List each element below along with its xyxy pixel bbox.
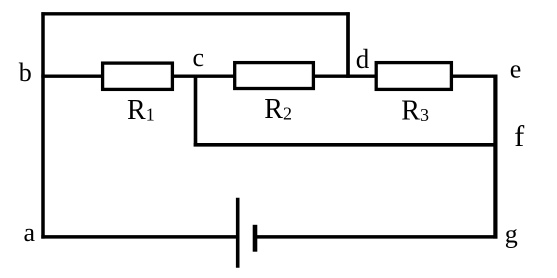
battery: long plate (positive) <box>236 198 240 268</box>
svg-text:a: a <box>24 218 36 247</box>
resistor R1 <box>103 63 173 89</box>
svg-text:d: d <box>356 44 370 74</box>
svg-text:R3: R3 <box>401 95 429 126</box>
wire: right vertical e to g <box>493 75 497 239</box>
wire: battery negative plate to g <box>255 235 498 239</box>
wire: vertical drop from top wire into node d <box>346 12 350 78</box>
wire: b to R1 left lead <box>41 74 102 77</box>
wire: horizontal c-branch over to f <box>194 143 498 147</box>
svg-text:g: g <box>505 220 518 249</box>
battery: short plate (negative) <box>253 225 258 252</box>
svg-text:R1: R1 <box>127 95 155 126</box>
wire: vertical from node c down <box>194 76 198 146</box>
resistor R3 <box>376 63 451 90</box>
svg-text:R2: R2 <box>264 94 292 125</box>
wire: R1 right lead to R2, through node c <box>173 74 235 77</box>
svg-text:c: c <box>193 43 205 72</box>
wire: left vertical b to a <box>41 12 45 238</box>
wire: top horizontal (b-side up and over to d) <box>41 12 349 15</box>
svg-text:b: b <box>19 58 32 87</box>
resistor R2 <box>235 63 314 89</box>
wire: R2 right lead to R3, through node d <box>314 74 377 77</box>
wire: bottom from a to battery positive plate <box>41 235 237 239</box>
svg-text:e: e <box>510 55 522 84</box>
wire: R3 right lead to e <box>452 74 497 77</box>
svg-text:f: f <box>514 120 524 153</box>
